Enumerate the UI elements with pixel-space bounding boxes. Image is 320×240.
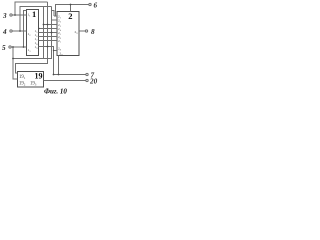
junction dot x43.5/y24.5 [43, 24, 45, 26]
svg-text:193: 193 [30, 81, 37, 86]
wire bus y=20 to pin 2-2 [52, 19, 58, 21]
wire terminal 3 to block 1 [12, 14, 26, 16]
svg-text:3: 3 [2, 12, 7, 20]
block 19 box [18, 72, 44, 88]
terminal 8 circle [85, 30, 87, 32]
terminal 5 circle [9, 46, 11, 48]
junction dot x47.5/y46.5 [47, 46, 49, 48]
junction dot x53.5/y74.5 [53, 74, 55, 76]
svg-text:8: 8 [91, 28, 95, 36]
wire bus y=32.5 block1 to pin 2-5 [39, 32, 58, 34]
svg-text:4: 4 [2, 28, 7, 36]
wire vertical x=47.5 loop down to y=63.5 then left to block 19 pin 19-1 [16, 2, 48, 73]
wire terminal 8 from block 2 right edge [79, 30, 85, 32]
junction dot x58.5/y74.5 [58, 74, 60, 76]
junction dot wire4/loopB [19, 30, 21, 32]
svg-text:6: 6 [94, 2, 98, 10]
terminal 3 circle [10, 14, 12, 16]
junction dot x70.5/y4.5 [70, 4, 72, 6]
wire left drop to block 19 pin 19-2 [13, 59, 18, 80]
junction dot x53.5/y50.5 [53, 50, 54, 51]
junction dot bus start y28.5 [38, 28, 39, 29]
svg-text:5: 5 [2, 44, 6, 52]
wire vertical x=43.5 from y=6.5 tap down to y=58.5 [43, 7, 45, 59]
wire bus y=36.5 block1 to pin 2-6 [39, 36, 58, 38]
junction dot x47.5/y24.5 [47, 24, 49, 26]
junction dot wire5/loopC [23, 46, 25, 48]
wire terminal 5 to block 1 [11, 46, 26, 48]
junction dot wire5 drop [12, 46, 14, 48]
wire from node on wire5 down then right y=58.5 [13, 7, 52, 59]
wire from block 2 bottom pin down to terminal 7 wire [58, 56, 60, 75]
wire bus y=24.5 to pin 2-3 [44, 24, 58, 26]
wire bus y=46.5 block1 jog down to pin 2-8 and drop to terminal-7 wire [39, 47, 54, 75]
wire top loop B horizontal y=6.5 [20, 7, 52, 32]
block 1 box [27, 10, 39, 56]
wire block 19 right pin to terminal 20 [44, 80, 86, 82]
svg-text:1: 1 [32, 9, 36, 19]
wire pin 2-1 stub [54, 15, 57, 17]
wire bus y=40.5 block1 to pin 2-7 [39, 40, 58, 42]
junction dot x13/y58.5 [12, 58, 14, 60]
terminal 7 circle [86, 73, 88, 75]
terminal 6 circle [89, 3, 91, 5]
terminal 20 circle [86, 79, 88, 81]
svg-text:19: 19 [35, 72, 43, 81]
wire terminal 4 to block 1 [12, 30, 26, 32]
svg-text:192: 192 [19, 81, 26, 86]
wire top loop A horizontal y=2 [15, 2, 48, 15]
wire bus y=28.5 block1 to pin 2-4 [39, 28, 58, 30]
svg-text:2: 2 [68, 11, 72, 21]
terminal 4 circle [10, 30, 12, 32]
wire short y=10.5 from x=51.5 to corner x=54 down to pin 2-1 [52, 11, 55, 17]
svg-text:20: 20 [89, 78, 98, 86]
svg-text:Фиг. 10: Фиг. 10 [44, 88, 67, 96]
wire terminal 6 net: corner down to pin 2-1 stub [56, 5, 89, 17]
paper background [0, 0, 100, 96]
svg-text:191: 191 [19, 75, 26, 80]
block 2 box [57, 12, 79, 56]
wire top loop C stub into block 1 pin [24, 11, 27, 48]
wire stub from top wire down to block 2 top edge [70, 5, 72, 12]
junction dot x51.5/y32.5 [51, 32, 53, 34]
wire to terminal 7 [54, 74, 86, 76]
junction dot wire3/loopA [14, 14, 16, 16]
wire pin 2-8 stub [54, 50, 58, 52]
